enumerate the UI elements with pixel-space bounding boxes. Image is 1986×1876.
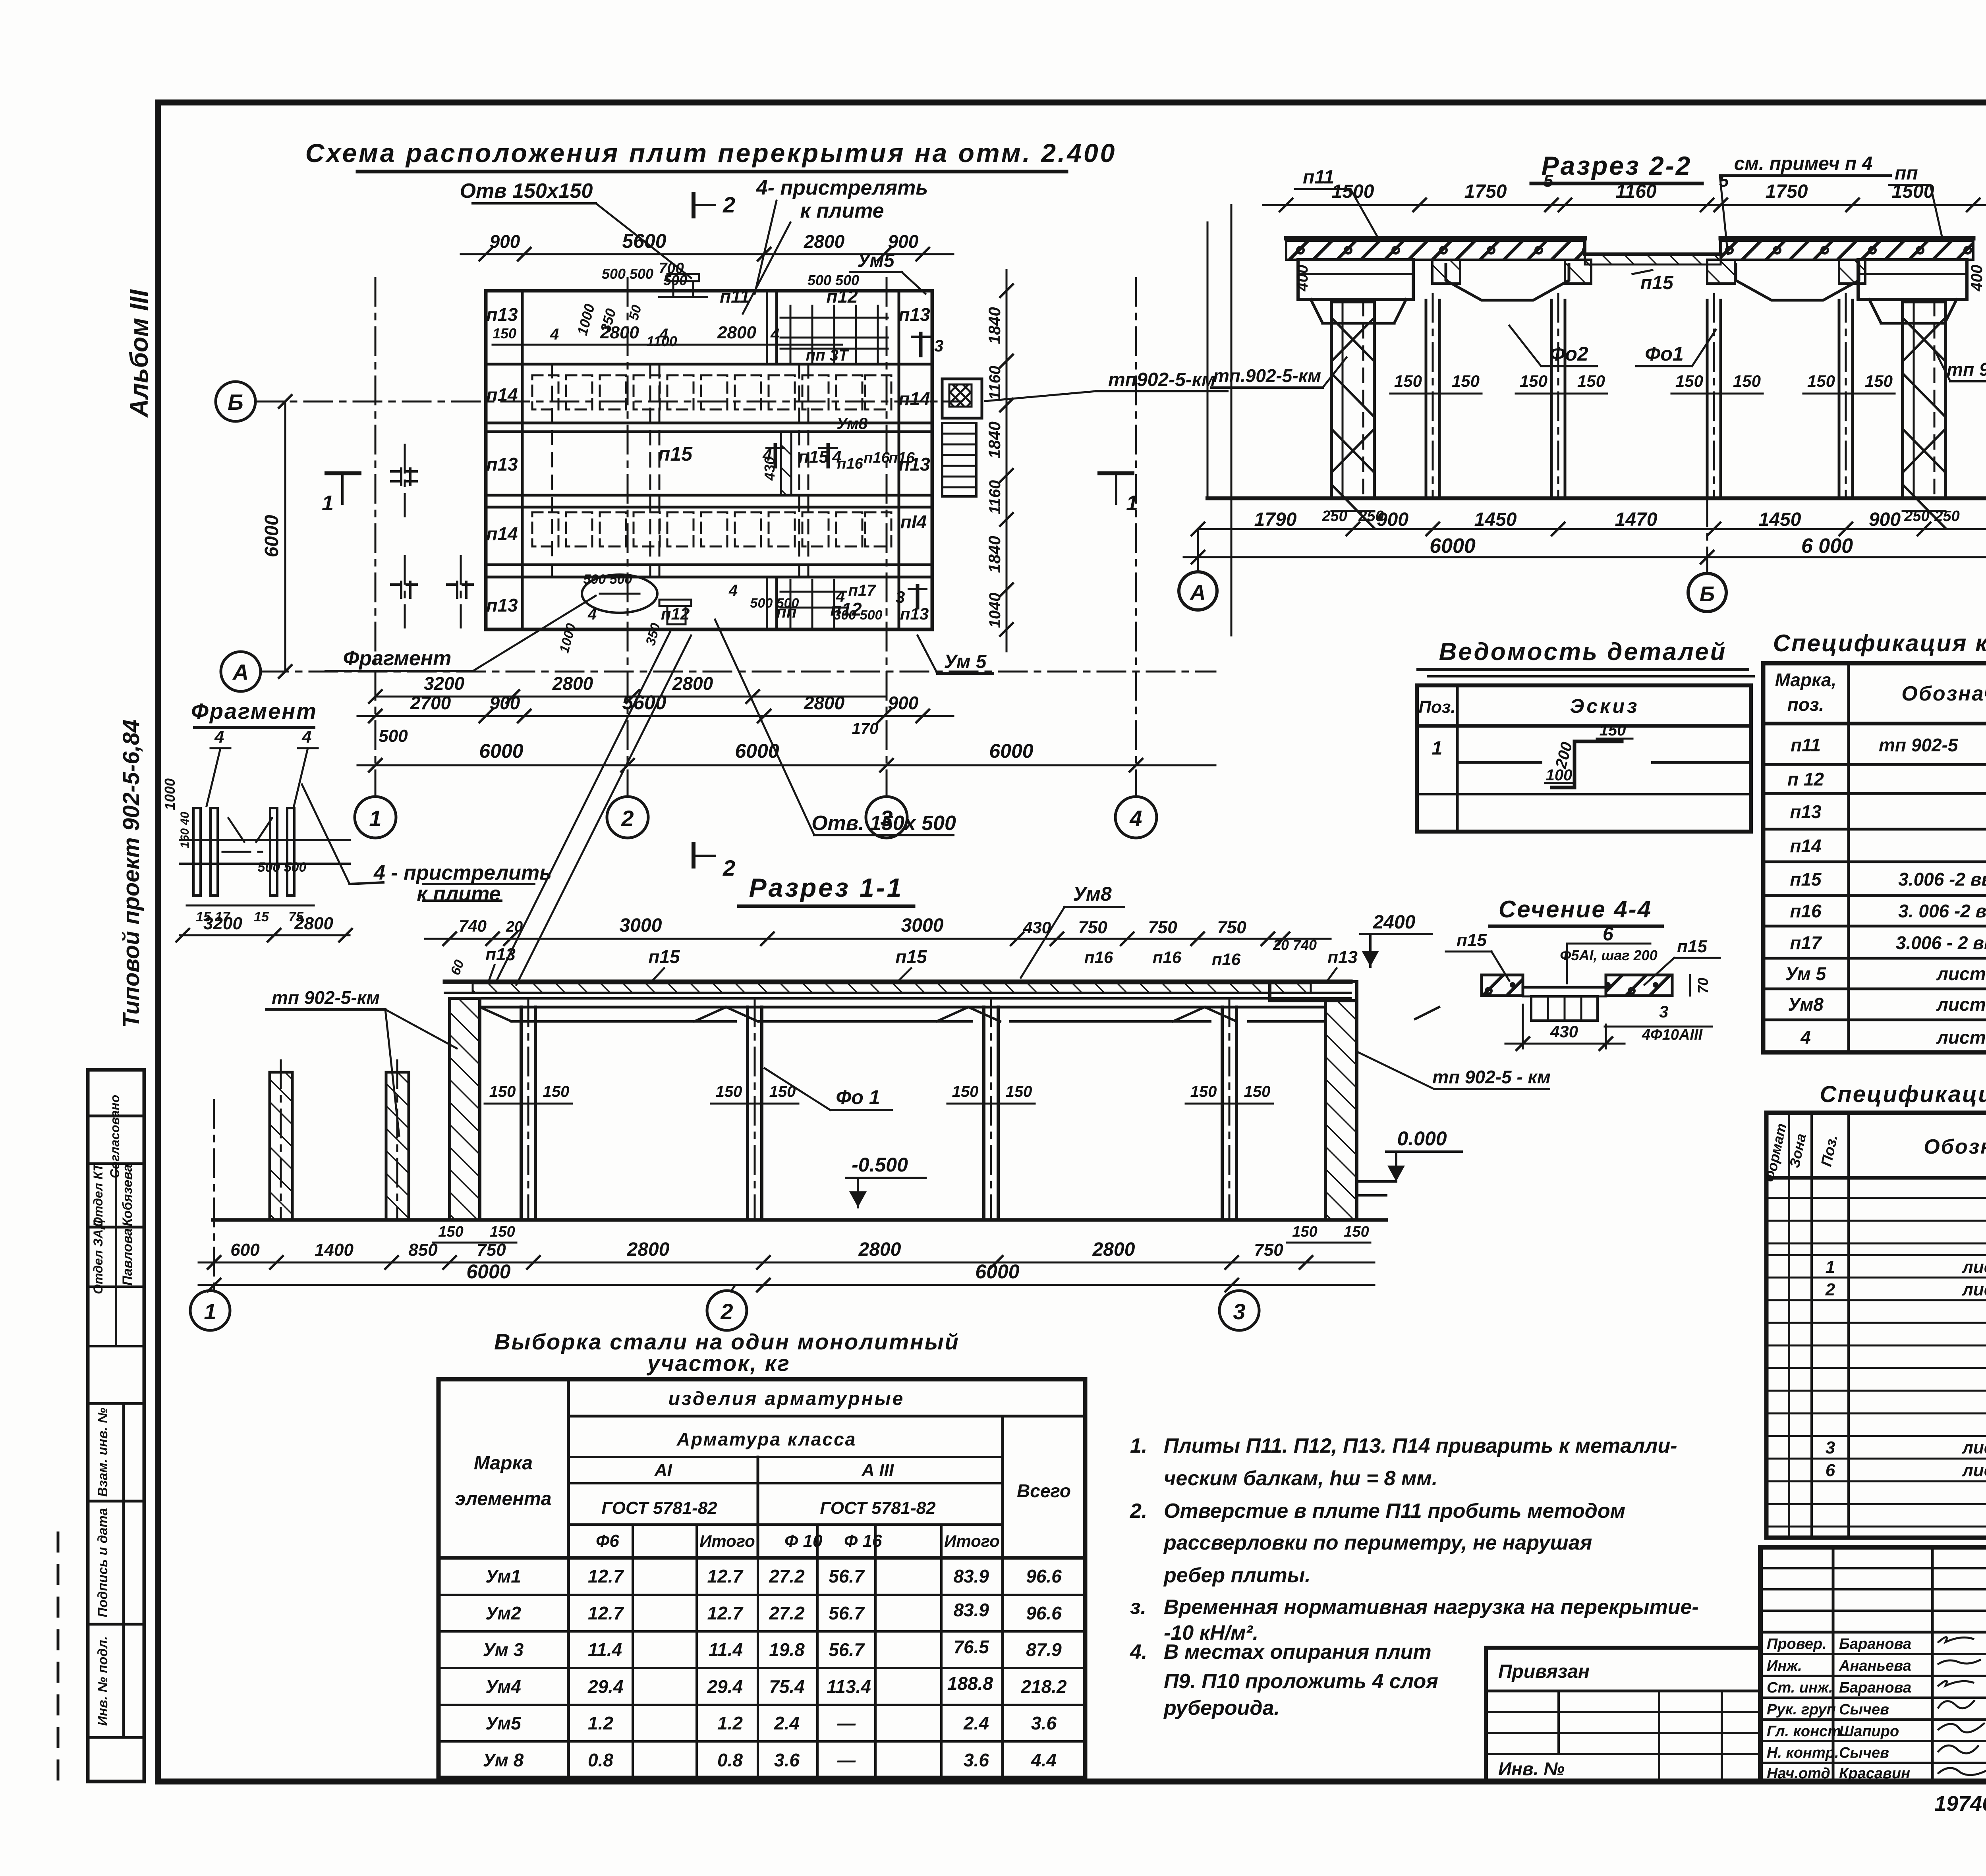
- svg-text:Фо2: Фо2: [1549, 343, 1588, 365]
- svg-text:тп 902-5: тп 902-5: [1879, 735, 1959, 755]
- svg-text:150: 150: [1006, 1083, 1032, 1100]
- svg-text:Ум 8: Ум 8: [483, 1750, 524, 1770]
- steel selection table rows: [485, 1566, 1062, 1586]
- svg-text:150: 150: [1675, 372, 1703, 390]
- section 1-1 plate labels: [448, 945, 1358, 982]
- steel selection table header text: [455, 1388, 1071, 1551]
- svg-text:250: 250: [1321, 508, 1347, 525]
- svg-text:Гл. конст.: Гл. конст.: [1767, 1723, 1845, 1740]
- svg-text:4: 4: [762, 446, 772, 464]
- svg-text:1840: 1840: [985, 421, 1004, 458]
- svg-text:Кобязева: Кобязева: [120, 1164, 135, 1226]
- svg-text:5600: 5600: [622, 691, 666, 714]
- section 2-2 bottom dim chain: [1192, 509, 1986, 535]
- svg-text:1160: 1160: [986, 366, 1004, 400]
- section 1-1 leaders: [266, 987, 1551, 1136]
- svg-text:430: 430: [1550, 1022, 1578, 1041]
- svg-text:3: 3: [1826, 1438, 1835, 1457]
- svg-text:150: 150: [1865, 372, 1893, 390]
- svg-text:2800: 2800: [294, 914, 333, 933]
- plan bottom oval detail: [556, 572, 882, 655]
- plan label Um5 bottom right: [918, 635, 993, 674]
- section 2-2 bottom dims 250 250: [1321, 508, 1959, 525]
- svg-text:лист 18: лист 18: [1961, 1280, 1986, 1299]
- plan leader: 4-pristrelit k plite (bottom): [302, 629, 691, 985]
- svg-text:3000: 3000: [620, 915, 662, 936]
- svg-text:2.4: 2.4: [774, 1713, 800, 1733]
- svg-text:тп 902-5 - км: тп 902-5 - км: [1432, 1067, 1551, 1087]
- svg-text:Ум1: Ум1: [485, 1566, 521, 1586]
- svg-text:АI: АI: [654, 1460, 672, 1480]
- plan top dimension chain 900 5600 2800 900: [461, 230, 953, 261]
- section 2-2 axis circles A B: [1179, 498, 1726, 612]
- svg-text:19746-03 28 Копировал Ан: 19746-03 28 Копировал Антипова: [1934, 1792, 1986, 1816]
- svg-text:5600: 5600: [622, 230, 666, 252]
- notes 1-4: [1130, 1434, 1677, 1490]
- svg-text:п13: п13: [485, 945, 516, 964]
- svg-text:п17: п17: [1790, 932, 1822, 953]
- svg-text:150: 150: [952, 1083, 979, 1100]
- section 1-1 top dimension chain: [425, 915, 1331, 953]
- svg-text:96.6: 96.6: [1026, 1566, 1062, 1586]
- svg-text:Ф 10: Ф 10: [784, 1531, 823, 1551]
- svg-text:Разрез 1-1: Разрез 1-1: [749, 873, 904, 902]
- svg-text:поз.: поз.: [1787, 694, 1824, 715]
- svg-text:1450: 1450: [1759, 509, 1801, 530]
- steel selection table title: [494, 1329, 960, 1376]
- svg-text:3.006 -2 вып. II -2: 3.006 -2 вып. II -2: [1898, 869, 1986, 890]
- svg-text:170: 170: [852, 720, 879, 737]
- svg-text:Типовой проект 902-5-6,84: Типовой проект 902-5-6,84: [118, 720, 144, 1028]
- svg-text:56.7: 56.7: [829, 1566, 865, 1586]
- svg-text:-0.500: -0.500: [852, 1154, 908, 1176]
- svg-text:76.5: 76.5: [953, 1637, 989, 1657]
- specification table 2 header: [1761, 1122, 1986, 1184]
- svg-text:2: 2: [723, 192, 735, 217]
- svg-text:83.9: 83.9: [953, 1566, 989, 1586]
- svg-text:3200: 3200: [203, 914, 242, 933]
- svg-text:0.000: 0.000: [1397, 1127, 1447, 1150]
- section mark 1 left: [322, 473, 359, 515]
- svg-text:50: 50: [626, 303, 645, 322]
- section 2-2 dim 6000 6000: [1184, 535, 1986, 564]
- svg-text:2800: 2800: [858, 1239, 901, 1260]
- title block outer: [1760, 1547, 1986, 1781]
- svg-text:А: А: [1190, 581, 1206, 604]
- svg-text:27.2: 27.2: [769, 1603, 805, 1623]
- svg-text:740: 740: [459, 917, 487, 935]
- svg-text:11.4: 11.4: [588, 1639, 622, 1660]
- svg-text:12.7: 12.7: [588, 1603, 624, 1623]
- svg-text:4: 4: [770, 326, 779, 343]
- svg-text:3: 3: [896, 588, 905, 606]
- svg-text:Ф5АI, шаг 200: Ф5АI, шаг 200: [1560, 947, 1657, 963]
- svg-text:2: 2: [1825, 1280, 1835, 1299]
- svg-text:6: 6: [1603, 924, 1613, 945]
- svg-text:300 500: 300 500: [834, 608, 883, 623]
- specification table 1 rows: [1791, 735, 1986, 755]
- svg-text:Ум8: Ум8: [1788, 994, 1824, 1015]
- svg-text:2: 2: [723, 855, 735, 880]
- svg-text:Схема расположения плит пере: Схема расположения плит перекрытия на от…: [305, 138, 1117, 168]
- svg-text:4.: 4.: [1130, 1641, 1147, 1664]
- section 1-1 dims 150 150 under columns: [433, 1224, 1370, 1243]
- plan section marks T3 right: [896, 334, 943, 608]
- plan right stair box tp902-5-km: [942, 369, 1227, 418]
- svg-text:Шапиро: Шапиро: [1839, 1723, 1899, 1740]
- plan axis horizontal A: [221, 652, 1215, 691]
- svg-text:Отдел КТ: Отдел КТ: [91, 1163, 105, 1227]
- vedomost detaley table grid: [1417, 685, 1751, 832]
- svg-text:3.6: 3.6: [774, 1750, 800, 1770]
- svg-text:Фо1: Фо1: [1645, 343, 1683, 365]
- svg-text:1400: 1400: [315, 1240, 354, 1260]
- specification table 1 title: [1773, 630, 1986, 656]
- left stamp strip boxes: [88, 1070, 144, 1781]
- svg-text:А: А: [232, 660, 249, 685]
- svg-text:Инв. № подл.: Инв. № подл.: [95, 1636, 110, 1726]
- svg-text:150: 150: [1452, 372, 1480, 390]
- svg-text:430: 430: [1023, 918, 1051, 937]
- svg-text:Ум8: Ум8: [1073, 883, 1112, 905]
- svg-text:4: 4: [301, 727, 311, 747]
- svg-text:6000: 6000: [466, 1260, 510, 1283]
- svg-text:участок, кг: участок, кг: [646, 1351, 790, 1376]
- svg-text:Инж.: Инж.: [1767, 1658, 1802, 1674]
- svg-text:1: 1: [1126, 491, 1138, 515]
- plan leader: Otv.150x500: [715, 620, 956, 835]
- privyazan box: [1486, 1648, 1760, 1781]
- svg-text:150: 150: [1394, 372, 1422, 390]
- plan wall break symbols: [391, 445, 473, 627]
- svg-text:87.9: 87.9: [1026, 1639, 1062, 1660]
- svg-text:15: 15: [254, 909, 269, 924]
- svg-text:5: 5: [1544, 171, 1553, 191]
- svg-text:150: 150: [769, 1083, 796, 1100]
- svg-text:150: 150: [490, 1224, 515, 1240]
- svg-text:0.8: 0.8: [717, 1750, 743, 1770]
- svg-text:70: 70: [1695, 978, 1711, 994]
- svg-text:Ум8: Ум8: [837, 415, 868, 432]
- svg-text:Спецификация к схеме расположе: Спецификация к схеме расположения плит п…: [1773, 630, 1986, 656]
- section 1-1 level 0.000: [1357, 1127, 1462, 1195]
- section 2-2 ground line: [1207, 205, 1986, 635]
- svg-text:Временная нормативная нагруз: Временная нормативная нагрузка на перекр…: [1164, 1596, 1699, 1619]
- svg-text:рассверловки по периметру, н: рассверловки по периметру, не нарушая: [1163, 1531, 1592, 1554]
- svg-text:ребер плиты.: ребер плиты.: [1163, 1564, 1311, 1587]
- svg-text:500 500: 500 500: [808, 272, 859, 288]
- specification table 1 grid: [1763, 663, 1986, 1052]
- svg-text:Отверстие в плите П11 проби: Отверстие в плите П11 пробить методом: [1164, 1500, 1625, 1523]
- svg-text:п11: п11: [720, 286, 750, 307]
- svg-text:4: 4: [214, 727, 224, 747]
- svg-text:лист 18: лист 18: [1961, 1257, 1986, 1277]
- section mark 2 bottom: [694, 844, 735, 880]
- svg-text:Б: Б: [1700, 582, 1715, 606]
- section 2-2 interior columns: [1426, 294, 1853, 498]
- svg-text:п15: п15: [648, 946, 680, 967]
- svg-text:1840: 1840: [985, 307, 1004, 344]
- section 1-1 slab band: [445, 982, 1350, 998]
- svg-text:150: 150: [1292, 1224, 1317, 1240]
- section 1-1 axis circles 1 2 3: [190, 1100, 1259, 1330]
- svg-text:6000: 6000: [1430, 535, 1476, 558]
- svg-text:лист 18: лист 18: [1936, 1027, 1986, 1048]
- plan axis horizontal B: [216, 382, 961, 421]
- section 1-1 foundation columns at left: [270, 1060, 409, 1220]
- svg-text:Ф6: Ф6: [596, 1531, 619, 1551]
- section 2-2 middle beam capitals: [1432, 260, 1865, 300]
- svg-text:19.8: 19.8: [769, 1639, 805, 1660]
- svg-text:96.6: 96.6: [1026, 1603, 1062, 1623]
- svg-text:Привязан: Привязан: [1498, 1661, 1590, 1682]
- svg-text:2: 2: [621, 806, 634, 831]
- svg-text:Ст. инж.: Ст. инж.: [1767, 1679, 1833, 1696]
- svg-text:п13: п13: [1790, 801, 1822, 822]
- plan left vertical dim 6000: [261, 395, 292, 678]
- svg-text:75.4: 75.4: [769, 1676, 805, 1697]
- svg-text:500 500: 500 500: [583, 572, 632, 587]
- svg-text:Н. контр.: Н. контр.: [1767, 1745, 1839, 1761]
- svg-text:1: 1: [369, 806, 381, 831]
- svg-text:1000: 1000: [556, 622, 579, 655]
- svg-text:п17: п17: [848, 582, 877, 599]
- svg-text:150: 150: [1520, 372, 1547, 390]
- vedomost Z-bar sketch with dims: [1545, 722, 1632, 787]
- svg-text:4: 4: [659, 326, 668, 343]
- svg-text:Рук. груп: Рук. груп: [1767, 1701, 1836, 1718]
- svg-text:тп.902-5-км: тп.902-5-км: [1213, 365, 1321, 386]
- footer copy line: [1934, 1792, 1986, 1816]
- svg-text:тп902-5-км: тп902-5-км: [1108, 369, 1216, 390]
- svg-text:п16: п16: [1790, 901, 1822, 921]
- svg-text:Спецификация монолитных уч: Спецификация монолитных участков Ум 5. У…: [1820, 1081, 1986, 1107]
- svg-text:150: 150: [1577, 372, 1605, 390]
- svg-text:2: 2: [720, 1299, 733, 1324]
- svg-text:83.9: 83.9: [953, 1600, 989, 1620]
- svg-text:150: 150: [1244, 1083, 1271, 1100]
- svg-text:750: 750: [1078, 918, 1107, 937]
- svg-text:3: 3: [934, 336, 943, 355]
- svg-text:2800: 2800: [804, 231, 845, 252]
- svg-text:Отв. 150х 500: Отв. 150х 500: [811, 812, 956, 835]
- section 1-1 Um8 leader: [1021, 883, 1124, 978]
- svg-text:3.6: 3.6: [964, 1750, 989, 1770]
- svg-text:4: 4: [836, 588, 845, 605]
- svg-text:п16: п16: [1212, 950, 1241, 969]
- plan bottom dim row 6000 6000 6000: [357, 740, 1215, 772]
- svg-text:150: 150: [716, 1083, 742, 1100]
- svg-text:400: 400: [1294, 265, 1311, 292]
- section 2-2 left lattice column: [1331, 302, 1374, 528]
- svg-text:4- пристрелять: 4- пристрелять: [756, 176, 928, 199]
- svg-text:60: 60: [448, 958, 467, 977]
- svg-text:Ф 16: Ф 16: [844, 1531, 882, 1551]
- svg-text:Ведомость деталей: Ведомость деталей: [1439, 638, 1727, 666]
- svg-text:пΙ4: пΙ4: [900, 511, 927, 532]
- svg-text:изделия арматурные: изделия арматурные: [668, 1388, 905, 1409]
- svg-text:11.4: 11.4: [709, 1639, 743, 1660]
- svg-text:6000: 6000: [479, 740, 523, 762]
- svg-text:4: 4: [550, 326, 559, 343]
- svg-text:1160: 1160: [1615, 181, 1657, 202]
- svg-text:4: 4: [587, 606, 597, 623]
- svg-text:Павлова: Павлова: [120, 1228, 135, 1285]
- svg-text:п13: п13: [486, 454, 518, 475]
- svg-text:1: 1: [204, 1299, 216, 1324]
- svg-text:150: 150: [543, 1083, 570, 1100]
- svg-text:Ум 5: Ум 5: [1785, 963, 1827, 984]
- svg-text:750: 750: [477, 1240, 506, 1260]
- plan beam dashed verticals: [552, 364, 808, 577]
- svg-text:Плиты П11. П12, П13. П14 при: Плиты П11. П12, П13. П14 приварить к мет…: [1164, 1434, 1677, 1457]
- svg-text:2.: 2.: [1130, 1500, 1147, 1523]
- svg-text:п13: п13: [900, 604, 929, 623]
- svg-text:4 - пристрелить: 4 - пристрелить: [373, 861, 552, 884]
- svg-text:Обозначение: Обозначение: [1901, 682, 1986, 705]
- small anchor detail at opening top: [667, 274, 699, 281]
- svg-text:6000: 6000: [975, 1260, 1019, 1283]
- svg-text:—: —: [837, 1713, 856, 1733]
- svg-text:Обозначение: Обозначение: [1924, 1135, 1986, 1158]
- section 2-2 labels: [1211, 153, 1986, 388]
- svg-text:Ум 5: Ум 5: [944, 651, 987, 672]
- svg-text:900: 900: [888, 693, 919, 713]
- svg-text:—: —: [837, 1750, 856, 1770]
- svg-text:4: 4: [728, 582, 738, 599]
- svg-text:200: 200: [1552, 740, 1576, 771]
- svg-text:160 40: 160 40: [178, 812, 191, 848]
- svg-text:1470: 1470: [1615, 509, 1658, 530]
- plan bottom dim row 2700 900 5600 2800 900: [357, 691, 953, 746]
- svg-text:12.7: 12.7: [588, 1566, 624, 1586]
- svg-text:п13: п13: [486, 304, 518, 325]
- svg-text:29.4: 29.4: [707, 1676, 743, 1697]
- svg-text:6000: 6000: [989, 740, 1033, 762]
- section 4-4 title: [1489, 896, 1662, 926]
- svg-text:П9. П10 проложить 4 слоя: П9. П10 проложить 4 слоя: [1164, 1670, 1438, 1693]
- svg-text:п15: п15: [658, 443, 693, 465]
- steel selection table grid: [439, 1379, 1085, 1778]
- plan inner dim row 150 2800 2800: [493, 323, 842, 345]
- svg-text:Сечение 4-4: Сечение 4-4: [1499, 896, 1652, 923]
- svg-text:29.4: 29.4: [587, 1676, 624, 1697]
- svg-text:4: 4: [1129, 806, 1142, 831]
- svg-text:250: 250: [1904, 508, 1929, 525]
- svg-text:Поз.: Поз.: [1818, 1133, 1841, 1168]
- plan Um5 mesh grid bottom (monolithic patch): [780, 580, 846, 627]
- svg-text:900: 900: [490, 231, 520, 252]
- svg-text:56.7: 56.7: [829, 1603, 865, 1623]
- svg-text:2800: 2800: [672, 673, 713, 694]
- svg-text:2800: 2800: [1092, 1239, 1135, 1260]
- svg-text:Ананьева: Ананьева: [1839, 1658, 1911, 1674]
- svg-text:150: 150: [489, 1083, 516, 1100]
- svg-text:1: 1: [322, 491, 334, 515]
- plan room labels: [486, 286, 930, 623]
- plan P14 row 1 dashed plate boxes: [532, 375, 891, 409]
- svg-text:1.: 1.: [1130, 1434, 1147, 1457]
- svg-text:3: 3: [1233, 1299, 1245, 1324]
- svg-text:А III: А III: [862, 1460, 894, 1480]
- svg-text:Ум2: Ум2: [485, 1603, 521, 1623]
- section 1-1 dim 6000 6000: [199, 1260, 1374, 1291]
- svg-text:п15: п15: [1790, 869, 1822, 890]
- svg-text:2800: 2800: [627, 1239, 670, 1260]
- svg-text:Баранова: Баранова: [1839, 1636, 1911, 1652]
- svg-text:Отв 150х150: Отв 150х150: [460, 179, 593, 203]
- svg-text:900: 900: [1869, 509, 1901, 530]
- svg-text:20: 20: [506, 919, 523, 935]
- title block signatures squiggles: [1938, 1637, 1986, 1775]
- svg-text:250: 250: [1934, 508, 1959, 525]
- svg-text:4: 4: [832, 448, 841, 466]
- label Typical project 902-5-6.84 (rotated, left margin): [118, 720, 144, 1028]
- svg-text:п13: п13: [1327, 948, 1358, 967]
- svg-text:500: 500: [379, 726, 408, 746]
- svg-text:ГОСТ 5781-82: ГОСТ 5781-82: [601, 1498, 717, 1518]
- svg-text:п16: п16: [1153, 948, 1182, 967]
- section mark 1 right: [1099, 473, 1138, 515]
- specification table 2 title: [1820, 1081, 1986, 1107]
- plan small dims above opening: [574, 260, 859, 349]
- svg-text:3000: 3000: [901, 915, 944, 936]
- section 2-2 top dimension chain: [1263, 171, 1986, 211]
- section 1-1 ground line: [213, 1218, 1386, 1222]
- section 2-2 left T-plate P11: [1298, 260, 1413, 323]
- svg-text:900: 900: [888, 231, 919, 252]
- svg-text:1040: 1040: [986, 593, 1004, 628]
- svg-text:2800: 2800: [804, 693, 845, 713]
- svg-text:12.7: 12.7: [707, 1603, 744, 1623]
- svg-text:3. 006 -2 вып. II-2: 3. 006 -2 вып. II-2: [1898, 901, 1986, 921]
- svg-text:20 740: 20 740: [1273, 937, 1317, 953]
- svg-text:к плите: к плите: [800, 199, 884, 222]
- svg-text:Арматура класса: Арматура класса: [676, 1429, 857, 1449]
- svg-text:лист 18: лист 18: [1936, 994, 1986, 1015]
- svg-text:к плите: к плите: [417, 882, 500, 905]
- svg-text:Инв. №: Инв. №: [1498, 1758, 1565, 1779]
- svg-text:п11: п11: [1791, 735, 1821, 755]
- svg-text:Провер.: Провер.: [1767, 1636, 1827, 1652]
- svg-text:лист 18: лист 18: [1936, 963, 1986, 984]
- svg-text:150: 150: [1807, 372, 1835, 390]
- section 2-2 right T-plate P11: [1858, 260, 1967, 323]
- svg-text:п15: п15: [895, 946, 927, 967]
- plan body outline: [486, 291, 932, 629]
- svg-text:113.4: 113.4: [827, 1676, 871, 1697]
- svg-text:1840: 1840: [985, 536, 1004, 573]
- svg-text:4.4: 4.4: [1031, 1750, 1057, 1770]
- section 1-1 dims 150 pairs: [485, 1083, 1273, 1104]
- svg-text:Красавин: Красавин: [1839, 1765, 1910, 1782]
- svg-text:150: 150: [493, 325, 516, 342]
- svg-text:3.006 - 2 вып. II -2: 3.006 - 2 вып. II -2: [1896, 932, 1986, 953]
- svg-text:п15: п15: [1457, 930, 1487, 950]
- svg-text:150: 150: [1190, 1083, 1217, 1100]
- plan hatched strip in P15 row: [761, 432, 791, 495]
- svg-text:Б: Б: [228, 390, 243, 415]
- plan Um5 mesh grid top (monolithic patch): [780, 306, 888, 363]
- svg-text:Разрез 2-2: Разрез 2-2: [1542, 151, 1692, 180]
- specification table 2 grid: [1766, 1113, 1986, 1538]
- plan stair steps: [942, 423, 976, 496]
- svg-text:1: 1: [1432, 738, 1443, 759]
- svg-text:6 000: 6 000: [1801, 535, 1853, 558]
- svg-text:элемента: элемента: [455, 1488, 552, 1509]
- plan view title: Schema raspolozheniya plit perekrytiya na otm. 2.400: [305, 138, 1117, 172]
- svg-text:750: 750: [1148, 918, 1177, 937]
